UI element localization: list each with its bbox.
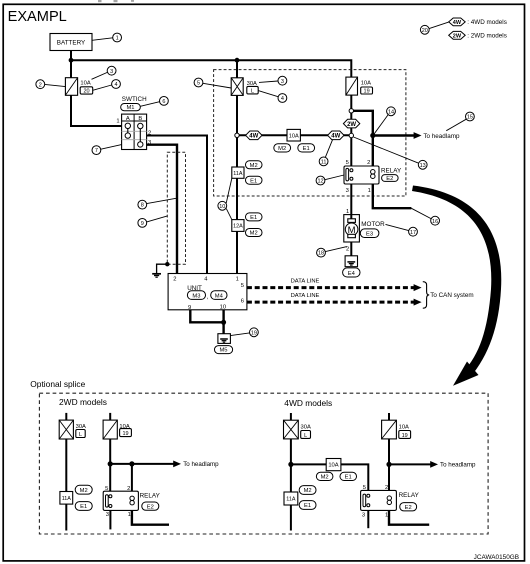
svg-text:8: 8 bbox=[141, 203, 144, 209]
svg-text:4: 4 bbox=[114, 82, 117, 88]
svg-text:11A: 11A bbox=[62, 496, 72, 502]
junction headlamp (4WD) bbox=[386, 462, 391, 467]
wire 4WD splice row bbox=[237, 134, 351, 136]
svg-text:EXAMPL: EXAMPL bbox=[8, 9, 67, 25]
connector M2 (11A) bbox=[246, 161, 263, 169]
junction splice (4WD) bbox=[288, 462, 293, 467]
svg-text:M3: M3 bbox=[192, 293, 200, 299]
wire F2 down to splice bbox=[236, 95, 238, 273]
wire to headlamp (2WD) bbox=[110, 463, 174, 465]
svg-text:E3: E3 bbox=[366, 231, 373, 237]
wire to headlamp with arrow bbox=[373, 134, 415, 136]
wire relay pin1 out (4WD) bbox=[389, 510, 429, 524]
svg-text:M5: M5 bbox=[219, 348, 227, 354]
svg-text:3: 3 bbox=[346, 188, 349, 194]
connector E1 bbox=[298, 144, 315, 152]
junction shield/ground bbox=[165, 262, 169, 266]
svg-text:10A: 10A bbox=[328, 463, 338, 469]
connector E3 bbox=[360, 229, 379, 238]
svg-text:M1: M1 bbox=[126, 105, 134, 111]
callout 18 bbox=[325, 247, 347, 252]
svg-text:2: 2 bbox=[173, 276, 176, 282]
svg-text:M2: M2 bbox=[278, 146, 286, 152]
inline connector 11A bbox=[232, 167, 244, 178]
svg-text:4W: 4W bbox=[249, 134, 258, 140]
svg-text:M2: M2 bbox=[250, 231, 258, 237]
wire stub above fuse F6 bbox=[290, 413, 292, 420]
junction contact feed / headlamp bbox=[370, 133, 375, 138]
svg-text:7: 7 bbox=[95, 148, 98, 154]
option tag 2W bbox=[343, 119, 359, 128]
inline fuse 10A box (4WD) bbox=[326, 459, 341, 471]
callout 4 bbox=[93, 85, 112, 90]
svg-text:18: 18 bbox=[318, 251, 324, 257]
connector M2 bbox=[274, 144, 291, 152]
svg-text:5: 5 bbox=[241, 283, 244, 289]
value box L bbox=[247, 86, 258, 94]
switch SW1 body bbox=[122, 114, 147, 149]
junction battery/bus bbox=[69, 58, 74, 63]
value box 20 bbox=[80, 87, 93, 94]
svg-text:12: 12 bbox=[317, 179, 323, 185]
wire relay pin3 down (4WD) bbox=[367, 510, 369, 528]
wire bus to fuse F2 bbox=[236, 60, 238, 78]
relay contact (4WD) bbox=[387, 496, 391, 500]
wire F1 to switch pin 1 bbox=[71, 95, 122, 126]
svg-text:2: 2 bbox=[346, 246, 349, 252]
callout 6 bbox=[140, 102, 159, 107]
wire switch pin2 to unit pin4 bbox=[147, 136, 207, 274]
splice node (lower, open) bbox=[349, 133, 353, 137]
wire stub above fuse F4 bbox=[65, 413, 67, 420]
svg-text:11A: 11A bbox=[233, 171, 243, 177]
svg-text:E2: E2 bbox=[147, 504, 154, 510]
svg-text:RELAY: RELAY bbox=[381, 168, 402, 175]
fuse F6 30A bbox=[284, 420, 299, 439]
svg-text:To headlamp: To headlamp bbox=[440, 462, 476, 469]
connector E1 (4WD left) bbox=[299, 501, 316, 510]
callout 14 bbox=[374, 115, 388, 134]
callout 3 (F2) bbox=[259, 81, 278, 82]
connector M1 bbox=[121, 104, 141, 111]
junction bus/fuse F2 bbox=[235, 58, 240, 63]
switch contact B3 bbox=[138, 142, 143, 147]
svg-text:L: L bbox=[79, 432, 82, 438]
wire relay pin3 down (2WD) bbox=[109, 510, 111, 529]
callout 7 bbox=[101, 145, 122, 150]
svg-text:M2: M2 bbox=[304, 488, 312, 494]
OPTIONAL SPLICE bbox=[30, 379, 488, 534]
svg-text:10: 10 bbox=[219, 204, 225, 210]
wire bus to fuse F1 bbox=[70, 60, 72, 77]
relay coil terminals (2WD) bbox=[109, 495, 112, 498]
shield ground wire bbox=[157, 264, 168, 273]
svg-text:16: 16 bbox=[432, 219, 438, 225]
svg-text:9: 9 bbox=[141, 221, 144, 227]
connector E2 bbox=[382, 175, 399, 182]
CAN brace bbox=[423, 282, 429, 309]
svg-text:5: 5 bbox=[197, 81, 200, 87]
svg-text:2: 2 bbox=[367, 160, 370, 166]
wire unit pin9 to ground bbox=[190, 310, 223, 323]
svg-text:10A: 10A bbox=[80, 81, 90, 87]
wire relay pin1 out (2WD) bbox=[132, 510, 169, 524]
relay coil terminals (4WD) bbox=[367, 494, 370, 497]
svg-text:: 2WD models: : 2WD models bbox=[467, 33, 507, 40]
callout 11 bbox=[325, 140, 332, 158]
svg-text:E1: E1 bbox=[304, 503, 311, 509]
svg-text:E1: E1 bbox=[80, 504, 87, 510]
inline connector 12A bbox=[232, 220, 244, 232]
optional splice dashed box bbox=[39, 393, 488, 534]
svg-text:1: 1 bbox=[116, 118, 119, 124]
wire F5 to relay coil bbox=[109, 439, 111, 491]
svg-text:M4: M4 bbox=[215, 293, 224, 299]
svg-text:4W: 4W bbox=[331, 134, 340, 140]
connector E1 (4WD splice) bbox=[340, 472, 357, 480]
big curved arrow to optional splice bbox=[412, 186, 501, 378]
svg-text:14: 14 bbox=[388, 109, 394, 115]
shield around wire bbox=[167, 152, 185, 264]
junction splice (2WD) bbox=[108, 461, 113, 466]
svg-text:3: 3 bbox=[362, 513, 365, 519]
callout 2 bbox=[45, 84, 66, 86]
callout 8 bbox=[147, 198, 176, 203]
callout 5 bbox=[203, 83, 231, 88]
svg-text:E2: E2 bbox=[386, 176, 393, 182]
svg-text:4W: 4W bbox=[453, 20, 462, 26]
svg-text:E1: E1 bbox=[250, 178, 257, 184]
svg-text:SWTICH: SWTICH bbox=[122, 96, 147, 103]
junction contact branch (2WD) bbox=[129, 461, 134, 466]
svg-text:3: 3 bbox=[106, 512, 109, 518]
svg-text:2: 2 bbox=[39, 82, 42, 88]
relay contact bbox=[371, 170, 376, 175]
switch link B1-B3 bbox=[139, 129, 141, 142]
svg-text:2WD models: 2WD models bbox=[59, 397, 107, 407]
svg-text:RELAY: RELAY bbox=[140, 492, 161, 499]
svg-text:To headlamp: To headlamp bbox=[183, 461, 219, 468]
splice node (left, open) bbox=[235, 133, 239, 137]
connector M2 (12A) bbox=[246, 229, 263, 237]
wire F3 down bbox=[350, 95, 352, 166]
callout 15 bbox=[446, 119, 466, 131]
svg-text:20: 20 bbox=[83, 89, 89, 95]
svg-text:17: 17 bbox=[410, 230, 416, 236]
svg-text:: 4WD models: : 4WD models bbox=[467, 19, 507, 26]
wire F6 down bbox=[290, 439, 292, 531]
callout 17 bbox=[386, 224, 409, 230]
svg-text:13: 13 bbox=[420, 163, 426, 169]
wire contact feed to relay pin2 bbox=[372, 136, 374, 167]
svg-text:L: L bbox=[251, 88, 254, 94]
value box 19 (F7) bbox=[399, 431, 411, 439]
callout 13 bbox=[354, 137, 419, 163]
svg-text:E1: E1 bbox=[250, 215, 257, 221]
fuse F2 30A bbox=[231, 78, 243, 96]
connector M2 (4WD left) bbox=[299, 486, 316, 495]
wire to headlamp (4WD) bbox=[389, 463, 431, 465]
fuse F3 10A bbox=[346, 77, 358, 95]
callout 16 bbox=[411, 208, 431, 218]
LEGEND bbox=[420, 18, 506, 40]
svg-text:3: 3 bbox=[110, 69, 113, 75]
switch contact B1 bbox=[138, 123, 143, 128]
svg-text:1: 1 bbox=[116, 36, 119, 42]
MAIN DIAGRAM bbox=[36, 33, 474, 354]
inline connector 11A (2WD) bbox=[60, 492, 73, 505]
svg-text:Optional splice: Optional splice bbox=[30, 379, 85, 389]
option tag 4W bbox=[246, 131, 262, 140]
connector M4 bbox=[211, 291, 227, 300]
svg-text:To headlamp: To headlamp bbox=[423, 133, 460, 140]
data line 2 bbox=[247, 301, 415, 304]
wire splice to inline fuse (4WD) bbox=[291, 463, 326, 465]
value box L (F6) bbox=[301, 431, 311, 439]
relay coil core bbox=[346, 168, 349, 181]
callout 3 bbox=[92, 72, 108, 79]
junction ground wires bbox=[221, 320, 226, 325]
wire inline fuse to relay coil (4WD) bbox=[341, 464, 368, 490]
svg-text:1: 1 bbox=[128, 512, 131, 518]
svg-text:M2: M2 bbox=[321, 475, 329, 481]
svg-text:10: 10 bbox=[220, 305, 226, 311]
value box 19 (F5) bbox=[120, 429, 132, 437]
wire F4 down bbox=[65, 439, 67, 531]
wire main bus bbox=[71, 60, 351, 77]
wire stub above fuse F7 bbox=[388, 413, 390, 420]
motor M body bbox=[344, 215, 360, 242]
fuse F1 10A bbox=[65, 78, 77, 96]
ground E4 box bbox=[345, 256, 357, 267]
switch contact A2 bbox=[125, 133, 130, 138]
wire relay pin1 out bbox=[373, 184, 412, 208]
svg-text:JCAWA0150GB: JCAWA0150GB bbox=[474, 554, 519, 561]
svg-text:E1: E1 bbox=[303, 146, 310, 152]
svg-text:19: 19 bbox=[251, 330, 257, 336]
callout 1 bbox=[92, 38, 113, 41]
svg-text:BATTERY: BATTERY bbox=[57, 40, 86, 47]
svg-text:19: 19 bbox=[364, 89, 370, 95]
svg-text:6: 6 bbox=[162, 99, 165, 105]
connector E4 bbox=[343, 268, 360, 277]
svg-text:3: 3 bbox=[281, 79, 284, 85]
callout 12 bbox=[325, 175, 344, 180]
SWOOSH bbox=[412, 186, 501, 386]
callout 4 (F2) bbox=[258, 91, 278, 97]
wire battery to bus bbox=[70, 51, 72, 61]
svg-text:5: 5 bbox=[346, 160, 349, 166]
svg-text:2: 2 bbox=[127, 486, 130, 492]
connector E2 (4WD) bbox=[400, 503, 417, 511]
data line 1 bbox=[247, 286, 415, 289]
svg-text:20: 20 bbox=[422, 28, 428, 34]
connector E2 (2WD) bbox=[142, 502, 159, 510]
relay contact (2WD) bbox=[130, 496, 134, 500]
svg-text:11: 11 bbox=[321, 160, 327, 166]
wire switch pin3 to unit pin2 (shielded) bbox=[147, 145, 177, 274]
connector E1 (11A) bbox=[246, 176, 263, 184]
svg-text:2: 2 bbox=[385, 485, 388, 491]
connector M2 (2WD) bbox=[75, 485, 92, 494]
connector M5 bbox=[215, 346, 233, 354]
svg-text:RELAY: RELAY bbox=[399, 492, 420, 499]
svg-text:5: 5 bbox=[363, 485, 366, 491]
svg-text:M2: M2 bbox=[80, 488, 88, 494]
ground M5 box bbox=[218, 334, 231, 344]
svg-text:A: A bbox=[126, 116, 130, 122]
wire unit pin10 to ground bbox=[222, 310, 224, 337]
fuse F5 10A bbox=[103, 420, 117, 439]
svg-text:E4: E4 bbox=[348, 271, 356, 277]
inline fuse 10A box bbox=[287, 129, 300, 141]
svg-text:M2: M2 bbox=[250, 163, 258, 169]
wire relay pin3 to motor bbox=[350, 184, 352, 215]
wire F7 to relay pin2 (4WD) bbox=[388, 439, 390, 491]
svg-text:30A: 30A bbox=[301, 424, 311, 430]
svg-text:E2: E2 bbox=[405, 505, 412, 511]
inline connector 11A (4WD) bbox=[284, 492, 298, 505]
splice node (upper, open) bbox=[349, 109, 353, 113]
svg-text:MOTOR: MOTOR bbox=[361, 221, 385, 228]
relay U4 body (4WD) bbox=[361, 490, 397, 510]
svg-text:DATA LINE: DATA LINE bbox=[291, 278, 320, 284]
callout 20 bbox=[429, 22, 449, 29]
svg-text:10A: 10A bbox=[399, 424, 409, 430]
svg-text:10A: 10A bbox=[289, 133, 299, 139]
callout 10 bbox=[226, 178, 232, 203]
option area dashed box bbox=[214, 70, 406, 196]
svg-text:11A: 11A bbox=[286, 497, 296, 503]
svg-text:L: L bbox=[304, 433, 307, 439]
legend tag 4W bbox=[449, 18, 466, 26]
callout 9 bbox=[147, 216, 168, 222]
svg-text:19: 19 bbox=[402, 433, 408, 439]
fuse F4 30A bbox=[59, 420, 73, 439]
legend tag 2W bbox=[449, 31, 466, 39]
switch link A1-A2 bbox=[127, 128, 129, 133]
connector E1 (12A) bbox=[246, 213, 263, 221]
value box L (F4) bbox=[76, 430, 85, 438]
svg-text:6: 6 bbox=[241, 298, 244, 304]
cropped text fragments at top edge bbox=[98, 0, 134, 2]
fuse F7 10A bbox=[382, 420, 397, 439]
svg-text:10A: 10A bbox=[361, 81, 371, 87]
relay U1 body bbox=[344, 166, 379, 184]
wire stub above fuse F5 bbox=[109, 413, 111, 420]
wire branch to contact feed bbox=[353, 111, 372, 136]
relay coil core (2WD) bbox=[106, 495, 109, 507]
svg-text:1: 1 bbox=[236, 276, 239, 282]
ground (shield) bbox=[152, 274, 161, 277]
svg-text:B: B bbox=[138, 116, 142, 122]
svg-text:4WD models: 4WD models bbox=[284, 398, 332, 408]
option tag 4W (right) bbox=[328, 131, 344, 140]
svg-text:E1: E1 bbox=[345, 475, 352, 481]
relay coil core (4WD) bbox=[363, 494, 366, 507]
battery B1 bbox=[50, 34, 92, 51]
svg-text:5: 5 bbox=[105, 486, 108, 492]
svg-text:2W: 2W bbox=[453, 33, 462, 39]
svg-text:19: 19 bbox=[122, 431, 128, 437]
connector M2 (4WD splice) bbox=[316, 472, 333, 480]
svg-text:DATA LINE: DATA LINE bbox=[291, 293, 320, 299]
connector E1 (2WD) bbox=[75, 502, 92, 511]
svg-text:4: 4 bbox=[281, 96, 284, 102]
relay U3 body (2WD) bbox=[103, 491, 138, 510]
connector M3 bbox=[187, 291, 205, 300]
switch contact A1 bbox=[125, 123, 130, 128]
svg-text:1: 1 bbox=[385, 513, 388, 519]
svg-text:12A: 12A bbox=[233, 224, 243, 230]
unit U2 body bbox=[168, 274, 247, 310]
relay coil terminals bbox=[350, 169, 353, 172]
wire motor to ground E4 bbox=[350, 242, 352, 262]
svg-text:15: 15 bbox=[467, 115, 473, 121]
wire to relay pin2 (2WD) bbox=[131, 464, 133, 491]
svg-text:To CAN system: To CAN system bbox=[430, 292, 473, 299]
svg-text:1: 1 bbox=[368, 188, 371, 194]
callout 19 bbox=[230, 333, 249, 336]
svg-text:2W: 2W bbox=[347, 122, 356, 128]
value box 19 bbox=[361, 87, 373, 94]
